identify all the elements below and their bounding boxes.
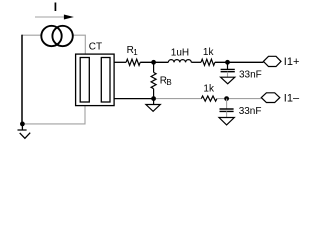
svg-text:I1–: I1–: [284, 92, 300, 104]
inductor 1uH: [168, 60, 191, 63]
CT primary winding bar: [80, 58, 89, 103]
wire CT to bottom rail node: [114, 98, 154, 100]
resistor 1k top: [201, 59, 215, 65]
resistor 1k bottom: [201, 96, 217, 101]
wire R1 to inductor: [140, 61, 168, 63]
svg-text:1k: 1k: [203, 47, 215, 58]
wire cap to ground gray: [227, 72, 229, 78]
wire gray cap to ground: [226, 111, 228, 117]
wire node A down: [153, 62, 155, 72]
svg-text:1: 1: [133, 48, 138, 57]
current arrow I shaft: [35, 16, 65, 18]
CT secondary winding bar: [101, 58, 110, 103]
wire node C to ground: [153, 99, 155, 105]
wire RB to bottom rail: [153, 89, 155, 99]
node junction at ground: [20, 122, 25, 127]
current source I (two overlapping circles): [41, 26, 61, 46]
svg-text:1uH: 1uH: [171, 47, 189, 58]
transformer CT outer box: [76, 54, 115, 106]
wire inductor to 1k: [191, 61, 201, 63]
svg-text:1k: 1k: [203, 83, 215, 94]
wire CT to R1: [114, 61, 126, 63]
wire gray 1k to I1- connector: [217, 98, 261, 100]
svg-text:I1+: I1+: [284, 56, 300, 68]
ground (top cap): [221, 77, 235, 84]
svg-text:CT: CT: [89, 42, 102, 53]
wire gray from current source to CT top: [73, 35, 86, 54]
capacitor 33nF bottom: [220, 109, 234, 111]
resistor R1: [126, 59, 140, 65]
connector I1-: [261, 93, 280, 103]
wire gray node D to cap: [226, 99, 228, 109]
svg-text:I: I: [54, 0, 57, 14]
ground (chassis, bottom left): [18, 124, 31, 138]
capacitor 33nF top: [221, 69, 235, 71]
svg-text:B: B: [166, 78, 171, 87]
node B (top cap junction): [225, 60, 230, 65]
svg-text:33nF: 33nF: [239, 106, 262, 117]
wire gray node C to 1k bottom: [156, 98, 201, 100]
wire 1k to I1+ connector: [215, 61, 264, 63]
node A (R1 / RB junction): [151, 60, 156, 65]
wire gray ground return to CT bottom: [22, 106, 85, 124]
svg-text:33nF: 33nF: [239, 69, 262, 80]
wire black left vertical: [21, 35, 23, 124]
resistor RB: [151, 72, 156, 88]
wire gray from left corner to current source: [22, 34, 42, 36]
node D (bottom cap junction): [224, 96, 229, 101]
ground (below RB): [146, 105, 160, 112]
current arrow I head: [64, 15, 74, 20]
wire node B to cap: [227, 62, 229, 69]
node C (RB ground junction): [151, 96, 156, 101]
ground (bottom cap): [219, 118, 234, 125]
connector I1+: [263, 56, 281, 66]
